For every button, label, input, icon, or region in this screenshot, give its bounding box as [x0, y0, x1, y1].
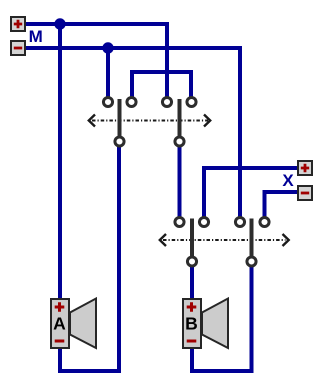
svg-text:B: B [185, 314, 198, 334]
svg-text:M: M [29, 27, 43, 46]
svg-text:X: X [282, 171, 294, 190]
svg-text:A: A [53, 314, 66, 334]
